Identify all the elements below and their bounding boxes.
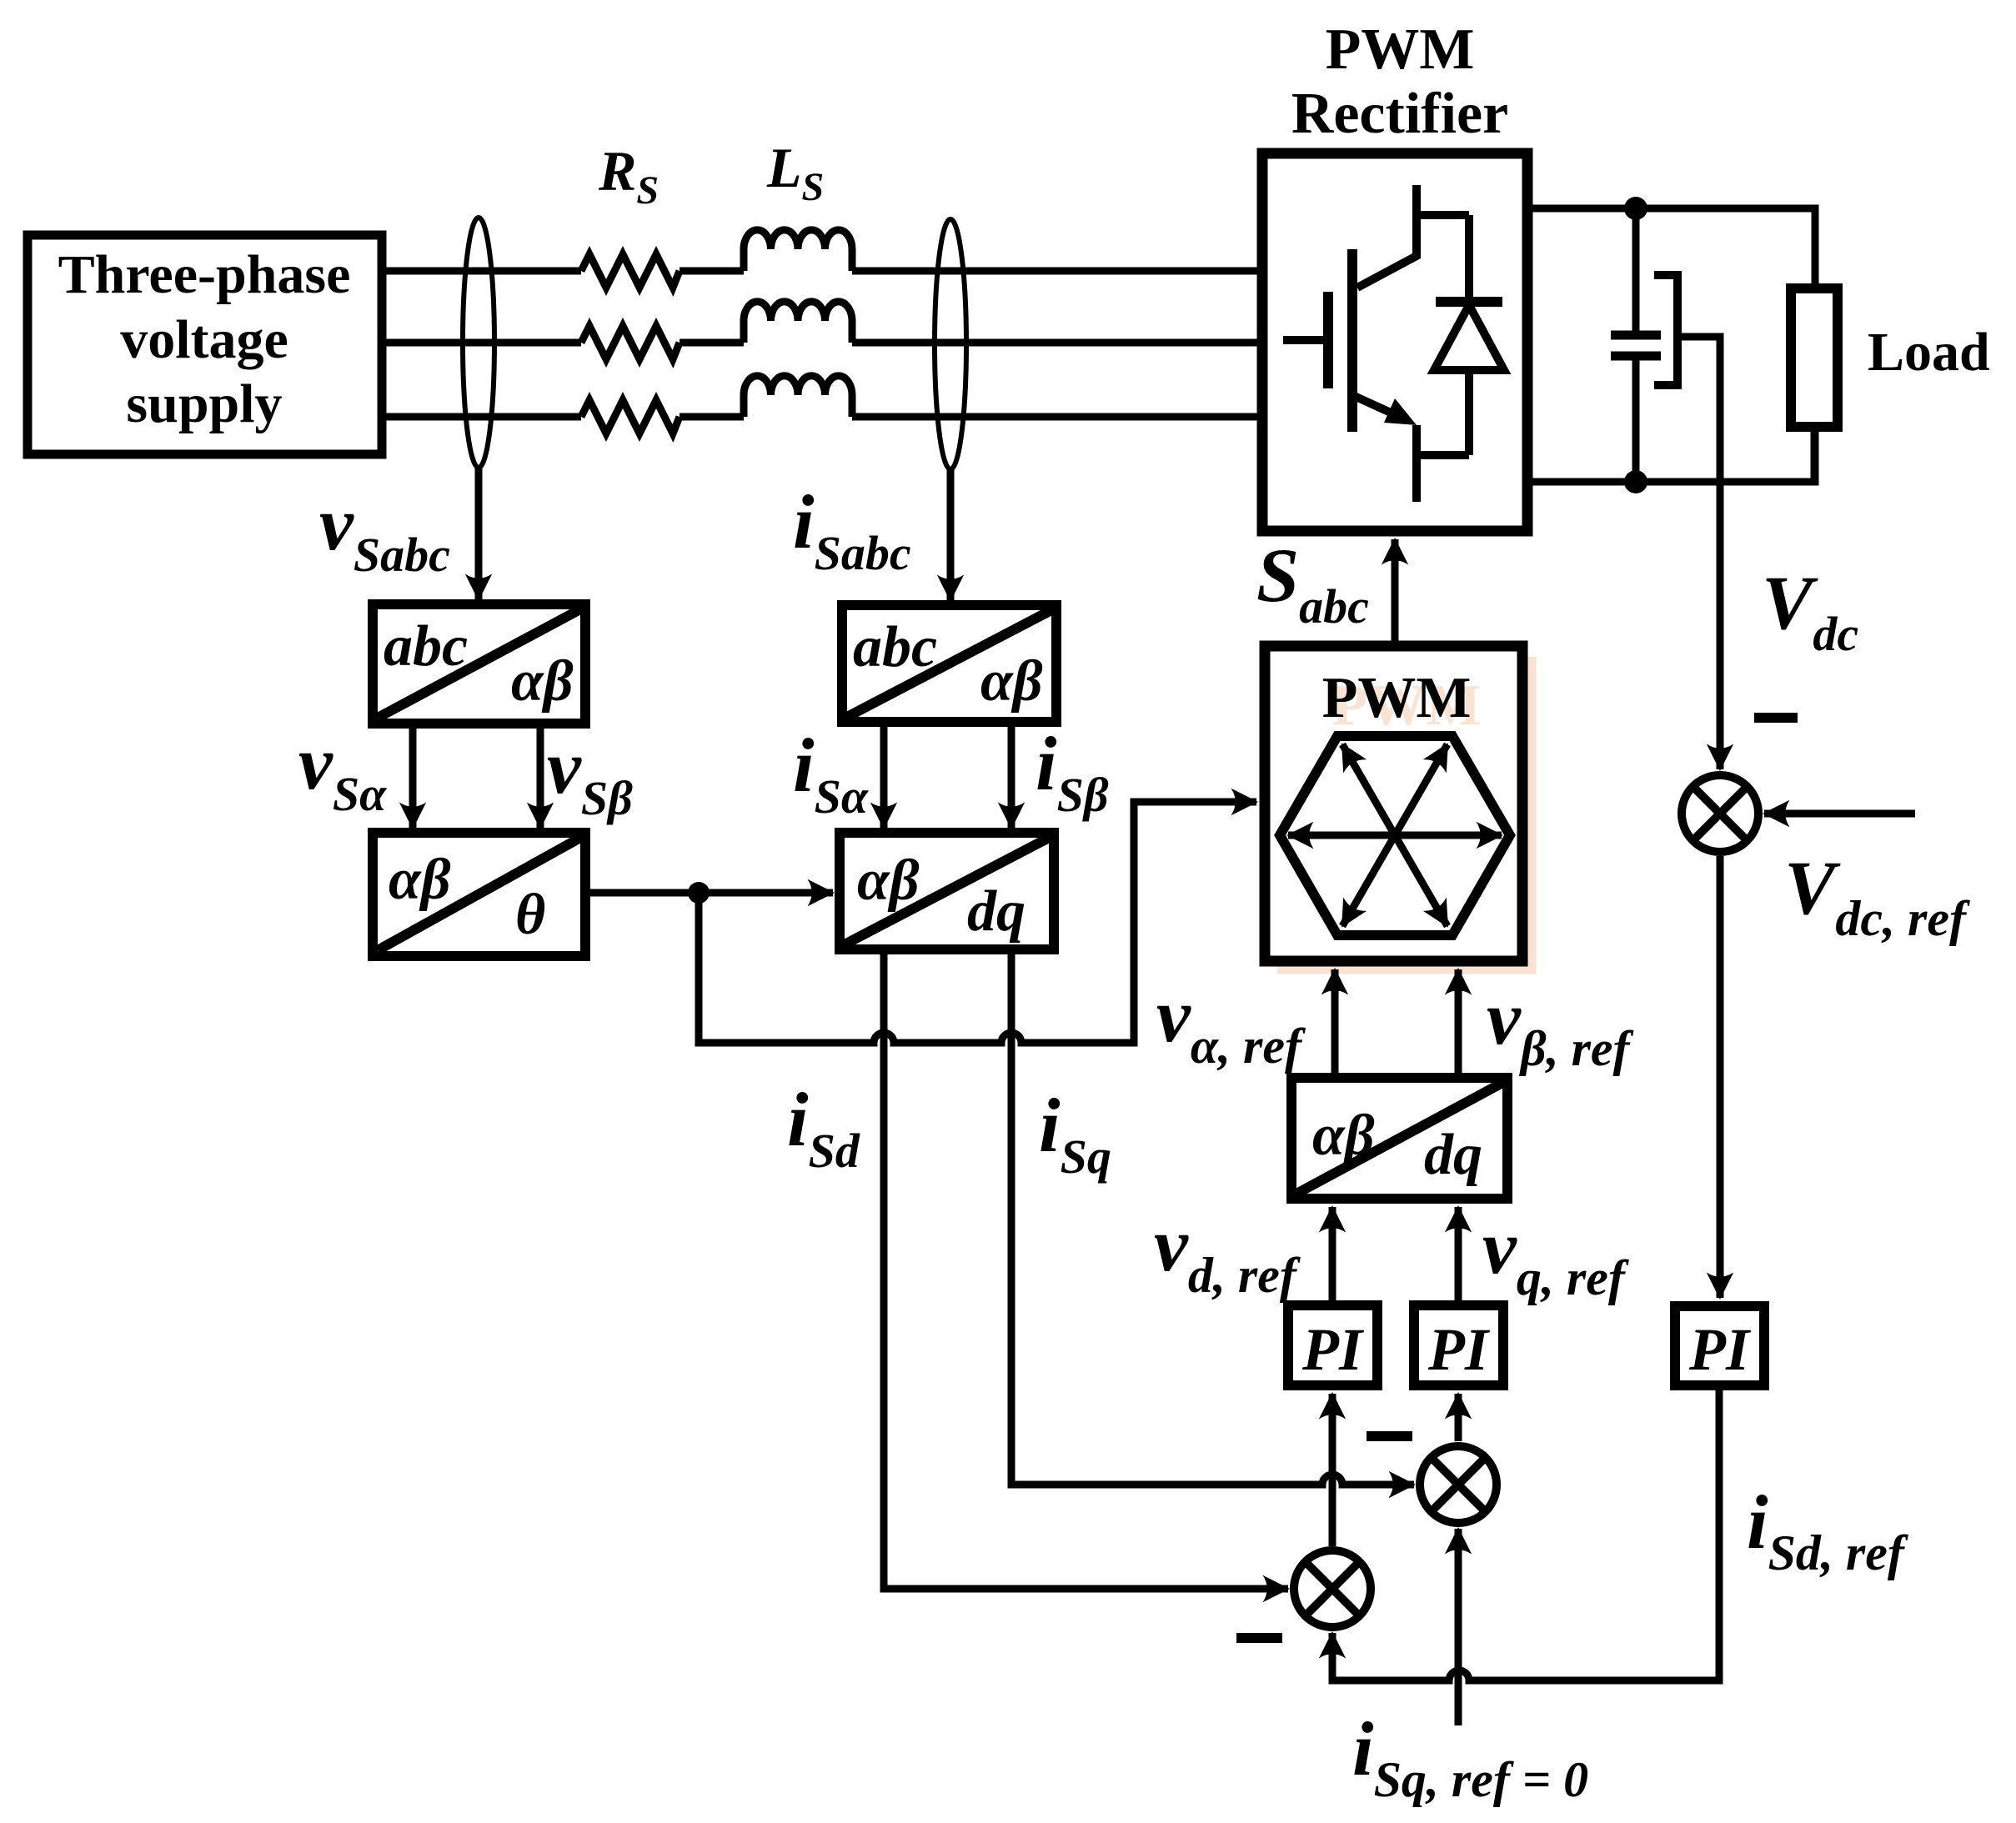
abc-alphabeta block (voltage) — [373, 604, 585, 724]
alphabeta-dq block (current) — [840, 833, 1054, 949]
summing junction Vdc — [1682, 775, 1758, 852]
svg-text:αβ: αβ — [980, 649, 1043, 714]
wire phase b to rectifier — [852, 339, 1262, 347]
wire phase c to rectifier — [852, 413, 1262, 421]
svg-text:θ: θ — [515, 883, 545, 947]
wire vSabc down — [475, 468, 483, 599]
svg-text:PI: PI — [1688, 1316, 1752, 1383]
wire iSbeta — [1008, 722, 1016, 828]
rectifier box — [1262, 153, 1527, 531]
wire dc- rail — [1527, 427, 1815, 482]
PI controller 2 (q axis) — [1414, 1305, 1503, 1385]
capacitor C — [1611, 208, 1661, 482]
PI controller 1 (d axis) — [1288, 1305, 1377, 1385]
wire iSq,ref — [1455, 1529, 1462, 1725]
svg-text:PI: PI — [1301, 1316, 1365, 1383]
measurement ellipses — [463, 218, 966, 469]
wire phase c — [382, 413, 581, 421]
summing junction d — [1294, 1550, 1371, 1627]
wire q error to PI2 — [1455, 1394, 1462, 1441]
current sensor ellipse — [935, 219, 966, 469]
load resistor — [1791, 288, 1838, 427]
wire Sabc — [1392, 539, 1399, 646]
voltage sensor ellipse — [463, 218, 494, 468]
wire iSalpha — [880, 722, 888, 828]
wire phase c mid — [680, 413, 744, 421]
wire iSd — [884, 949, 1288, 1589]
minus sign d — [1236, 1633, 1282, 1643]
node theta — [688, 882, 710, 904]
wire phase b mid — [680, 339, 744, 347]
wire theta to PWM — [699, 802, 1256, 1043]
svg-text:supply: supply — [126, 373, 282, 434]
hexagon arrow horizontal — [1288, 832, 1502, 839]
inductor L_S phase c — [744, 376, 852, 417]
svg-text:αβ: αβ — [511, 649, 574, 714]
svg-text:voltage: voltage — [120, 309, 288, 370]
wire iSq — [1011, 949, 1414, 1485]
wire theta to dq — [585, 889, 833, 897]
minus sign Vdc — [1754, 713, 1798, 723]
resistor R_S phase b — [581, 326, 680, 359]
alphabeta-theta block (PLL) — [373, 833, 585, 956]
wire phase a to rectifier — [852, 268, 1262, 275]
wire vSalpha — [409, 724, 417, 828]
wire Vdc down — [1717, 482, 1724, 769]
node dc+ — [1624, 197, 1647, 220]
wire dc+ rail — [1527, 208, 1815, 288]
svg-text:Rectifier: Rectifier — [1291, 82, 1508, 146]
wire vSbeta — [537, 724, 544, 828]
svg-text:αβ: αβ — [857, 849, 920, 913]
svg-text:PWM: PWM — [1322, 666, 1472, 730]
control wires — [413, 468, 1915, 1725]
inductor L_S phase b — [744, 302, 852, 343]
node dc- — [1624, 470, 1647, 493]
wire iSabc down — [947, 469, 955, 600]
PWM box shadow — [1277, 657, 1531, 969]
three-phase voltage supply box — [28, 235, 382, 454]
wire vbeta,ref — [1455, 969, 1462, 1078]
wire valpha,ref — [1331, 969, 1339, 1078]
wire d error to PI1 — [1329, 1394, 1336, 1546]
wire Vdc,ref — [1764, 810, 1915, 818]
hexagon arrow diagonal 2 — [1342, 744, 1447, 926]
PWM rectifier — [1262, 153, 1527, 531]
PWM box — [1265, 646, 1522, 961]
PI controller 3 (Vdc) — [1675, 1306, 1764, 1385]
summing junctions — [1236, 713, 1798, 1643]
svg-text:PWM: PWM — [1326, 18, 1475, 82]
svg-text:Three-phase: Three-phase — [58, 244, 351, 305]
alphabeta-dq block (reference voltages) — [1291, 1078, 1507, 1199]
wire load bottom — [1811, 427, 1818, 482]
svg-text:abc: abc — [384, 614, 468, 679]
SVM hexagon — [1280, 736, 1510, 935]
summing junction q — [1420, 1446, 1497, 1523]
transistor Q1 (IGBT) — [1283, 185, 1469, 502]
DC link — [1527, 197, 1990, 493]
PWM block — [1265, 646, 1531, 969]
svg-text:abc: abc — [853, 615, 937, 679]
voltage probe bracket — [1654, 275, 1677, 385]
wire phase a — [382, 268, 581, 275]
wire phase b — [382, 339, 581, 347]
svg-text:dq: dq — [1424, 1123, 1482, 1187]
svg-text:Load: Load — [1868, 322, 1990, 383]
svg-text:PI: PI — [1427, 1316, 1491, 1383]
abc-alphabeta block (current) — [842, 605, 1056, 722]
svg-text:dq: dq — [967, 879, 1026, 944]
wire Vdc error to PI3 — [1717, 856, 1724, 1298]
phase wires with R and L — [382, 230, 1262, 433]
diode D1 — [1436, 215, 1502, 455]
wire iSd,ref — [1332, 1385, 1719, 1680]
svg-text:αβ: αβ — [1312, 1104, 1375, 1168]
svg-text:αβ: αβ — [389, 848, 451, 912]
wire vq,ref — [1455, 1207, 1462, 1305]
wire phase a mid — [680, 268, 744, 275]
inductor L_S phase a — [744, 230, 852, 271]
minus sign q — [1367, 1431, 1412, 1441]
transform blocks — [373, 604, 1764, 1385]
resistor R_S phase c — [581, 400, 680, 433]
hexagon arrow diagonal 1 — [1342, 744, 1447, 926]
wire vd,ref — [1329, 1207, 1336, 1305]
resistor R_S phase a — [581, 254, 680, 288]
wire Vdc tap — [1677, 337, 1720, 482]
